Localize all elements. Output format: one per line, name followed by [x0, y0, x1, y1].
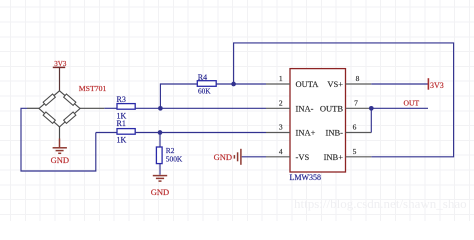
wire pin8 to 3V3 — [371, 83, 428, 85]
svg-text:60K: 60K — [198, 87, 211, 96]
power 3V3 (left) — [53, 60, 67, 91]
svg-text:VS+: VS+ — [327, 79, 343, 89]
wire R3 row to pin2 — [160, 107, 266, 109]
feedback top rail — [234, 43, 454, 157]
svg-text:3: 3 — [279, 123, 283, 132]
svg-text:GND: GND — [151, 187, 169, 197]
svg-text:500K: 500K — [166, 154, 183, 163]
pin 8 — [346, 83, 372, 85]
wire R1 row to pin3 — [160, 132, 266, 134]
wire bridge left loop — [21, 108, 96, 171]
svg-text:R4: R4 — [198, 73, 207, 82]
pin 6 — [346, 132, 372, 134]
svg-text:R3: R3 — [117, 95, 126, 104]
svg-text:8: 8 — [356, 74, 360, 83]
svg-text:6: 6 — [353, 123, 357, 132]
power 3V3 (right) — [428, 78, 443, 90]
ground under bridge — [53, 139, 67, 154]
resistor R4 — [160, 73, 233, 108]
sensor right pin — [80, 107, 104, 109]
svg-text:5: 5 — [353, 147, 357, 156]
junction node R3/R4 — [158, 106, 163, 111]
pin 3 — [266, 132, 290, 134]
svg-text:3V3: 3V3 — [430, 81, 444, 90]
svg-text:LMW358: LMW358 — [290, 173, 322, 182]
svg-text:2: 2 — [279, 98, 283, 107]
svg-text:INA-: INA- — [296, 103, 314, 113]
ground under R2 — [153, 176, 167, 182]
pin 2 — [266, 107, 290, 109]
svg-text:INB+: INB+ — [324, 152, 344, 162]
pin 1 — [266, 83, 290, 85]
wire pin6 feedback riser — [370, 108, 372, 132]
resistor R2 — [156, 133, 182, 175]
junction node R4 out — [231, 82, 236, 87]
pin 7 — [346, 107, 372, 109]
svg-text:https://blog.csdn.net/shawn_sh: https://blog.csdn.net/shawn_shao — [294, 196, 467, 211]
wire pin7 OUT — [371, 107, 428, 109]
svg-text:OUT: OUT — [404, 98, 420, 107]
resistor R3 — [104, 95, 160, 121]
sensor left pin — [27, 107, 39, 109]
svg-text:1: 1 — [279, 74, 283, 83]
svg-text:4: 4 — [279, 147, 283, 156]
svg-text:-VS: -VS — [296, 152, 310, 162]
wire GND to pin4 — [242, 156, 266, 158]
op-amp U1 LMW358 — [290, 69, 346, 182]
svg-text:INA+: INA+ — [296, 128, 316, 138]
svg-text:OUTA: OUTA — [296, 79, 320, 89]
sensor bottom pin — [59, 127, 61, 139]
wire riser to R1 — [96, 132, 117, 134]
wire to pin1 — [234, 83, 266, 85]
junction node R1/R2 — [158, 130, 163, 135]
svg-text:GND: GND — [51, 155, 69, 165]
svg-text:R1: R1 — [117, 119, 126, 128]
ground power symbol at pin4 — [234, 149, 241, 165]
junction node pin7 — [369, 106, 374, 111]
svg-text:OUTB: OUTB — [320, 103, 343, 113]
sensor MST701 bridge — [27, 91, 104, 139]
svg-text:INB-: INB- — [326, 128, 344, 138]
svg-text:7: 7 — [354, 98, 358, 107]
svg-text:GND: GND — [214, 152, 232, 162]
pin 5 — [346, 156, 372, 158]
pin 4 — [266, 156, 290, 158]
svg-text:1K: 1K — [117, 136, 127, 145]
svg-text:MST701: MST701 — [79, 84, 107, 93]
resistor R1 — [117, 119, 161, 145]
